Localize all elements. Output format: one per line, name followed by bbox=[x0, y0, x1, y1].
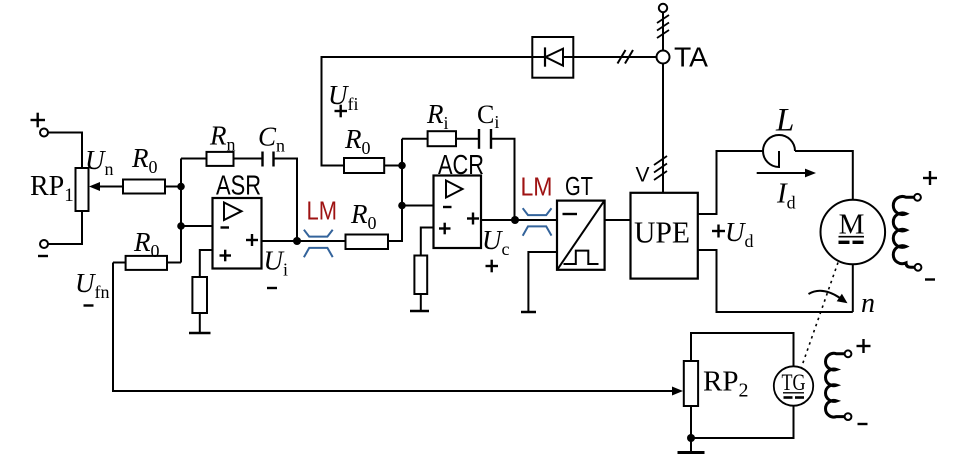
terminal circle RP1 - bbox=[40, 240, 48, 248]
arrowhead RP1 wiper bbox=[89, 182, 100, 191]
node ACR input bbox=[398, 202, 406, 210]
pin - ACR inverting bbox=[443, 206, 452, 208]
shaft dotted line motor to TG bbox=[801, 263, 838, 369]
svg-text:LM: LM bbox=[307, 196, 338, 226]
wire RP2 ground stub bbox=[690, 438, 692, 453]
wire RP1 top feed bbox=[48, 133, 82, 169]
op-amp U-ACR box bbox=[434, 176, 482, 249]
terminal circle motor coil + bbox=[914, 194, 921, 201]
wire Cn return bbox=[274, 159, 297, 242]
tachogenerator TG circle bbox=[774, 366, 813, 405]
wire ASR output to limiter bbox=[297, 240, 346, 242]
svg-text:LM: LM bbox=[521, 172, 553, 202]
svg-text:ASR: ASR bbox=[216, 170, 261, 201]
rectifier box V-D bbox=[532, 37, 573, 78]
wire TA to UPE bbox=[662, 64, 664, 193]
potentiometer RP2 bbox=[684, 361, 698, 406]
GT diagonal bbox=[558, 201, 605, 269]
isolation slashes on TA wire bbox=[618, 50, 634, 64]
node ASR output Ui bbox=[293, 237, 301, 245]
GT pulse symbol bbox=[564, 251, 599, 264]
wire ASR output bbox=[262, 240, 298, 242]
node TA circle bbox=[657, 51, 670, 64]
terminal circle top bbox=[659, 4, 667, 12]
capacitor Cn bbox=[263, 152, 274, 167]
op-amp ACR triangle bbox=[446, 181, 463, 198]
wire GT to UPE bbox=[605, 219, 631, 221]
svg-text:L: L bbox=[775, 103, 794, 139]
polarity + Ud bbox=[712, 225, 725, 238]
ground (ASR) bbox=[189, 332, 211, 335]
node ACR output Uc bbox=[511, 216, 519, 224]
wire node to ACR inverting input bbox=[402, 205, 434, 207]
terminal circle motor coil - bbox=[915, 264, 922, 271]
svg-text:TA: TA bbox=[674, 42, 708, 73]
svg-text:UPE: UPE bbox=[634, 215, 690, 250]
wire R0 to node bbox=[165, 186, 181, 188]
wire ACR output bbox=[481, 219, 515, 221]
wire RP2 bottom bbox=[691, 406, 794, 438]
wire motor bottom bbox=[852, 264, 854, 312]
wire rectifier to TA bbox=[573, 56, 656, 58]
excitation coil (TG) bbox=[826, 353, 845, 417]
diode cathode bar bbox=[544, 47, 546, 66]
potentiometer RP1 bbox=[76, 168, 89, 211]
op-amp ASR triangle bbox=[224, 203, 242, 221]
block GT box bbox=[557, 201, 605, 270]
arrowhead RP2 wiper bbox=[672, 387, 683, 396]
TG mark bbox=[782, 370, 806, 398]
polarity + TG field bbox=[857, 339, 871, 353]
block UPE box bbox=[631, 193, 698, 279]
wire ASR noninverting input bbox=[200, 250, 213, 277]
polarity - TG field bbox=[858, 423, 868, 425]
polarity - Ui bbox=[267, 287, 277, 289]
motor M circle bbox=[821, 200, 886, 265]
terminal circle TG coil - bbox=[845, 413, 852, 420]
ground (ACR) bbox=[410, 310, 429, 313]
excitation coil (motor) bbox=[893, 196, 914, 267]
node RP2 ground bbox=[687, 434, 695, 442]
resistor Ri bbox=[428, 131, 456, 146]
rotation arrow n curve bbox=[809, 291, 841, 298]
terminal circle TG coil + bbox=[845, 350, 852, 357]
wire resistor to ground bbox=[420, 294, 422, 311]
wire ACR noninverting input bbox=[421, 228, 434, 256]
polarity + Uc bbox=[486, 260, 499, 273]
resistor ACR + to ground bbox=[414, 256, 427, 295]
wire Rn to Cn bbox=[234, 158, 263, 160]
wire top rail to motor bbox=[795, 151, 853, 200]
resistor R0 (Un input) bbox=[123, 180, 165, 194]
svg-text:n: n bbox=[861, 288, 875, 319]
capacitor Ci bbox=[479, 129, 491, 149]
plus minus marks bbox=[31, 105, 938, 424]
wire top terminal down bbox=[662, 12, 664, 50]
node ASR input bbox=[177, 222, 185, 230]
arrowhead rotation n bbox=[837, 294, 848, 304]
polarity - RP1 bottom bbox=[38, 255, 48, 257]
ground (GT) bbox=[521, 311, 536, 314]
svg-text:ACR: ACR bbox=[438, 149, 484, 180]
svg-text:TG: TG bbox=[782, 370, 806, 395]
polarity + motor field bbox=[923, 171, 937, 185]
node Ufi R0 bbox=[398, 162, 406, 170]
polarity - Ufn bbox=[84, 304, 94, 306]
wire Ufn long feedback bbox=[113, 263, 674, 392]
wire Ri to Ci bbox=[456, 138, 479, 140]
wire R0 to summing vertical bbox=[167, 262, 181, 264]
pin - GT input bbox=[563, 213, 578, 215]
resistor Rn bbox=[207, 152, 234, 166]
GT ground wire bbox=[528, 252, 557, 312]
diode lead left bbox=[532, 56, 545, 58]
diode lead right bbox=[563, 56, 573, 58]
wire node to Ri bbox=[402, 138, 428, 140]
wire resistor to ground bbox=[199, 313, 201, 333]
wire RP2 top to TG bbox=[691, 333, 794, 366]
node Un summing bbox=[177, 183, 185, 191]
arrowhead Id bbox=[805, 169, 816, 178]
limiter LM2 symbol bbox=[523, 208, 552, 236]
wire Ci return to ACR output bbox=[492, 139, 515, 220]
diode triangle bbox=[546, 49, 564, 66]
svg-text:M: M bbox=[839, 209, 865, 241]
motor M mark bbox=[839, 209, 865, 243]
svg-text:V: V bbox=[636, 164, 650, 187]
wire RP1 wiper to R0 bbox=[98, 186, 123, 188]
inductor L bbox=[763, 135, 795, 167]
Id arrow line bbox=[757, 172, 807, 174]
resistor R0 (Ufn input) bbox=[126, 256, 167, 270]
wire Ufi vertical bbox=[384, 165, 402, 167]
resistor R0 (Ufi input) bbox=[344, 158, 384, 173]
wire Ufn lead to R0 bbox=[113, 262, 126, 264]
hatch marks near V bbox=[654, 156, 667, 180]
wire limiter to GT bbox=[515, 219, 557, 221]
terminal circle RP1 + bbox=[40, 129, 48, 137]
op-amp U-ASR box bbox=[213, 198, 262, 269]
wire R0 up to ACR node bbox=[388, 139, 402, 241]
wire UPE + output bbox=[698, 151, 763, 214]
resistor R0 (ACR input) bbox=[346, 235, 389, 250]
svg-text:GT: GT bbox=[565, 171, 593, 201]
wire UPE - output bbox=[698, 250, 853, 312]
wire summing vertical bbox=[180, 159, 182, 263]
hatch marks above TA bbox=[657, 15, 669, 38]
wire node to ASR inverting input bbox=[181, 225, 213, 227]
ground (RP2) bbox=[678, 451, 705, 454]
polarity + Ufi bbox=[335, 105, 348, 118]
wire to Rn bbox=[181, 158, 207, 160]
resistor ASR + to ground bbox=[192, 277, 207, 313]
polarity - motor field bbox=[925, 278, 935, 280]
pin + ACR noninverting bbox=[439, 223, 451, 235]
polarity + ASR output bbox=[246, 234, 258, 246]
wire RP1 bottom bbox=[48, 211, 82, 244]
polarity + ACR output bbox=[467, 213, 479, 225]
wire Ufi feed bbox=[322, 57, 533, 166]
pin - ASR inverting bbox=[221, 226, 230, 228]
limiter LM1 symbol bbox=[304, 230, 333, 258]
polarity + RP1 top bbox=[31, 113, 46, 128]
pin + ASR noninverting bbox=[220, 250, 232, 262]
